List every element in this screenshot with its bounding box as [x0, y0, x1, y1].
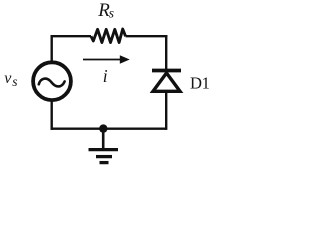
svg-text:D1: D1	[190, 74, 210, 93]
svg-text:s: s	[109, 6, 114, 21]
svg-text:i: i	[103, 66, 108, 86]
svg-text:s: s	[12, 74, 17, 89]
svg-text:v: v	[4, 70, 12, 87]
